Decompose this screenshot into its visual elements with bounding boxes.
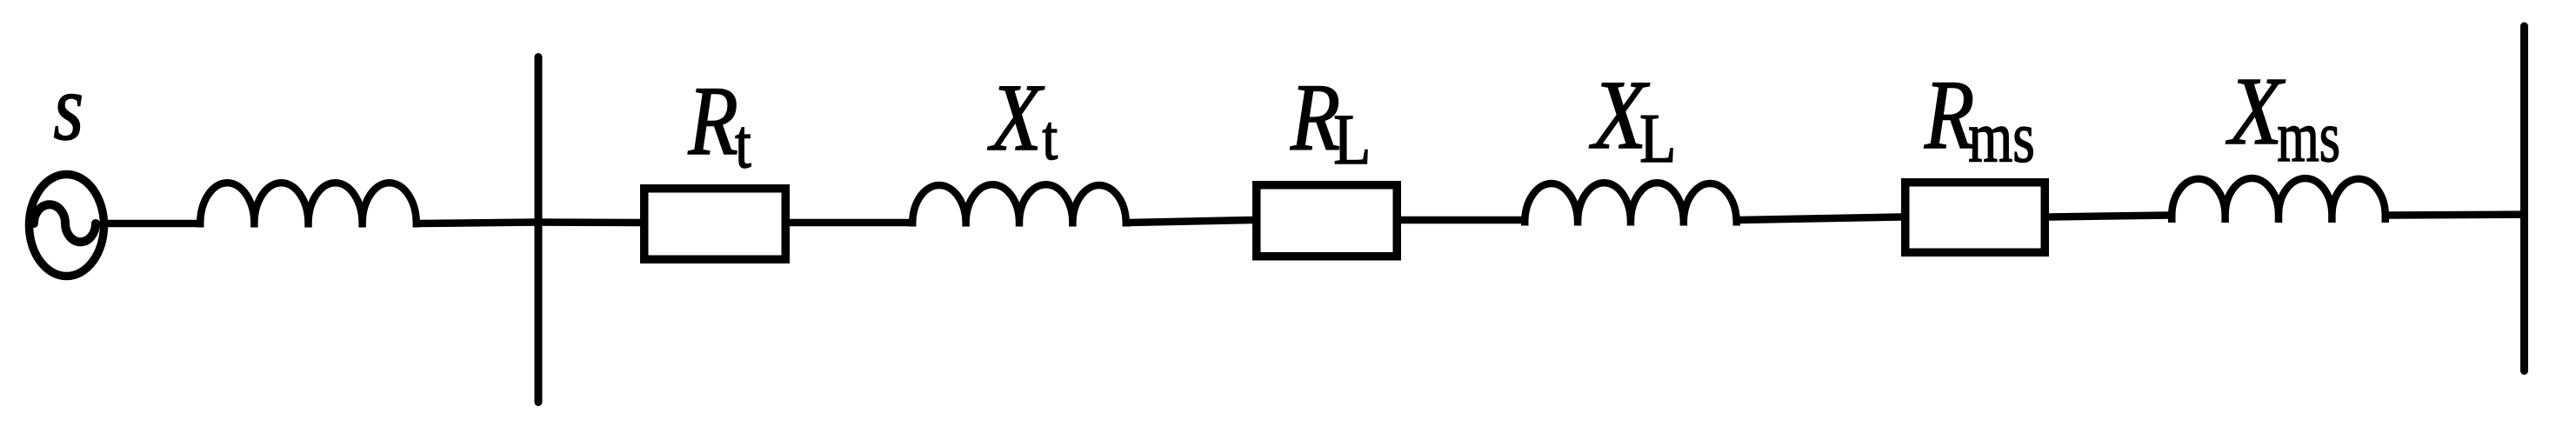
svg-text:ms: ms [2277,96,2340,177]
svg-text:L: L [1333,99,1371,180]
svg-text:t: t [1043,103,1058,173]
svg-text:R: R [688,67,738,176]
svg-text:L: L [1639,100,1676,177]
svg-text:X: X [987,65,1044,170]
svg-text:s: s [53,55,83,160]
svg-text:ms: ms [1968,97,2034,178]
svg-text:R: R [1924,61,1974,170]
svg-text:t: t [735,104,751,182]
